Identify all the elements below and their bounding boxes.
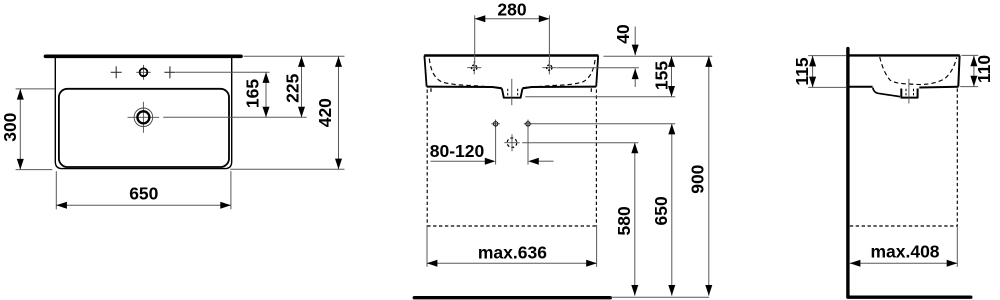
plan ext line: left edge to 650 dim bbox=[55, 171, 57, 209]
plan ext line: right edge to 650 dim bbox=[230, 171, 232, 209]
plan ext line: tap hole to 165 dim bbox=[176, 71, 270, 73]
dimension 300 arrows bbox=[17, 89, 24, 100]
dimension max.636 line bbox=[427, 262, 597, 264]
svg-text:280: 280 bbox=[497, 0, 526, 19]
side view: drain centerline bbox=[908, 79, 910, 104]
dimension 225 arrows bbox=[298, 56, 305, 67]
plan view: optional tap hole mark left bbox=[111, 71, 122, 73]
dimension 225 line bbox=[301, 56, 303, 117]
dimension 420 arrows bbox=[335, 56, 342, 67]
svg-text:80-120: 80-120 bbox=[430, 141, 485, 161]
svg-text:900: 900 bbox=[688, 164, 708, 193]
dimension 155 line bbox=[671, 56, 673, 96]
side view: basin top edge bbox=[850, 54, 960, 56]
front view: hidden box below basin bbox=[426, 90, 428, 227]
dimension 900 arrows bbox=[705, 56, 712, 67]
plan view: drain outer circle bbox=[134, 108, 153, 127]
front ext line: siphon to 580 dim bbox=[522, 142, 638, 144]
plan ext line: bowl bottom to 300 dim bbox=[16, 169, 53, 171]
plan view: optional tap hole mark right bbox=[164, 71, 175, 73]
svg-text:40: 40 bbox=[613, 24, 633, 44]
front view: fixing tick right bbox=[590, 88, 592, 92]
dimension max.408 arrows bbox=[850, 260, 861, 267]
svg-text:115: 115 bbox=[792, 57, 812, 85]
dimension max.636 arrows bbox=[427, 260, 438, 267]
side view: siphon channel bbox=[873, 88, 900, 97]
side ext lines: 110 dim bbox=[962, 54, 979, 56]
plan ext line: drain to 165/225 dims bbox=[163, 116, 306, 118]
front ext line: spout bottom to 155 dim bbox=[525, 96, 675, 98]
side view: basin front edge bbox=[958, 55, 959, 86]
front view: siphon circle bbox=[507, 138, 517, 148]
front view: fixing hole right bbox=[526, 122, 530, 126]
front ext line: tap hole to 40 dim bbox=[557, 67, 639, 69]
front view: fixing hole left bbox=[493, 122, 497, 126]
plan ext line: bowl top to 300 dim bbox=[16, 88, 55, 90]
svg-text:225: 225 bbox=[283, 73, 303, 102]
svg-text:650: 650 bbox=[129, 184, 158, 204]
front view: left tap hole bbox=[467, 67, 481, 69]
plan view: tap hole crosshair bbox=[136, 71, 151, 73]
dimension 650 line (front) bbox=[671, 124, 673, 296]
side view: bowl hidden contour bbox=[880, 57, 957, 85]
front ext lines: fixing holes to 80-120 dim bbox=[495, 128, 497, 165]
front view: right tap hole bbox=[542, 67, 556, 69]
dimension 80-120 lines+arrows bbox=[431, 160, 486, 162]
svg-text:650: 650 bbox=[651, 196, 671, 225]
svg-text:max.636: max.636 bbox=[478, 242, 547, 262]
plan view: inner bowl outline bbox=[59, 89, 229, 167]
front ext lines: tap holes to 280 dim bbox=[474, 15, 476, 63]
dimension 300 line bbox=[19, 89, 21, 170]
dimension 110 arrows bbox=[970, 56, 977, 67]
dimension 115 arrows bbox=[809, 56, 816, 67]
dimension 115 line bbox=[812, 56, 814, 87]
dimension 110 line bbox=[973, 56, 975, 87]
plan ext line: bottom to 420 dim bbox=[230, 168, 344, 170]
svg-text:110: 110 bbox=[974, 55, 994, 83]
svg-text:155: 155 bbox=[651, 61, 671, 90]
dimension 900 line bbox=[708, 56, 710, 295]
front view: floor extension line bbox=[611, 296, 710, 298]
side view: wall and floor bbox=[848, 49, 971, 298]
dimension max.408 line bbox=[850, 262, 958, 264]
dimension 580 line bbox=[634, 143, 636, 296]
dimension 165 arrows bbox=[263, 72, 270, 83]
side view: hidden box below basin bbox=[956, 89, 958, 227]
side view: basin bottom edge bbox=[850, 86, 873, 88]
plan view: wall edge bar bbox=[46, 54, 242, 58]
side view: drain box bbox=[901, 89, 917, 98]
dimension 280 arrows bbox=[475, 15, 486, 22]
dimension 40 line+arrows bbox=[634, 27, 636, 56]
front view: drain spout hidden lines bbox=[507, 89, 509, 97]
svg-text:300: 300 bbox=[0, 112, 20, 141]
dimension 650 line bbox=[56, 204, 231, 206]
svg-text:420: 420 bbox=[315, 98, 335, 127]
side view: drain box hidden lines bbox=[905, 89, 907, 97]
dimension 580 arrows bbox=[631, 143, 638, 154]
front view: fixing tick left bbox=[430, 88, 432, 92]
dimension 280 line bbox=[475, 18, 550, 20]
front view: drain spout outline bbox=[502, 88, 523, 97]
dimension 155 arrows bbox=[668, 56, 675, 67]
front view: bowl hidden contour bbox=[429, 59, 595, 88]
side ext lines: 115 dim bbox=[808, 55, 846, 57]
front view: floor line bbox=[414, 296, 610, 299]
front ext line: basin top to 40/900 dims bbox=[604, 55, 713, 57]
front view: basin top edge bbox=[424, 54, 598, 56]
front ext line: fixing hole to 650 dim bbox=[532, 123, 676, 125]
dimension 650 arrows (front) bbox=[668, 124, 675, 135]
front view: basin right edge bbox=[596, 56, 598, 87]
svg-text:165: 165 bbox=[242, 79, 262, 108]
svg-text:max.408: max.408 bbox=[870, 241, 939, 261]
front view: basin left edge bbox=[424, 56, 426, 87]
front view: basin bottom edge bbox=[427, 87, 597, 89]
front ext lines: hidden box to max.636 dim bbox=[426, 226, 428, 267]
plan view: drain crosshair bbox=[142, 102, 144, 133]
plan view: drain inner circle bbox=[137, 111, 149, 123]
plan ext line: wall bar to 225/420 dims bbox=[244, 55, 345, 57]
dimension 420 line bbox=[338, 56, 340, 169]
plan view: outer basin outline bbox=[55, 58, 231, 169]
plan view: tap hole circle bbox=[140, 68, 148, 76]
dimension 650 arrows bbox=[56, 202, 67, 209]
svg-text:580: 580 bbox=[614, 206, 634, 235]
front view: drain centerline bbox=[511, 79, 513, 105]
side ext line: hidden box to max.408 dim bbox=[956, 226, 958, 267]
dimension 165 line bbox=[265, 72, 267, 117]
